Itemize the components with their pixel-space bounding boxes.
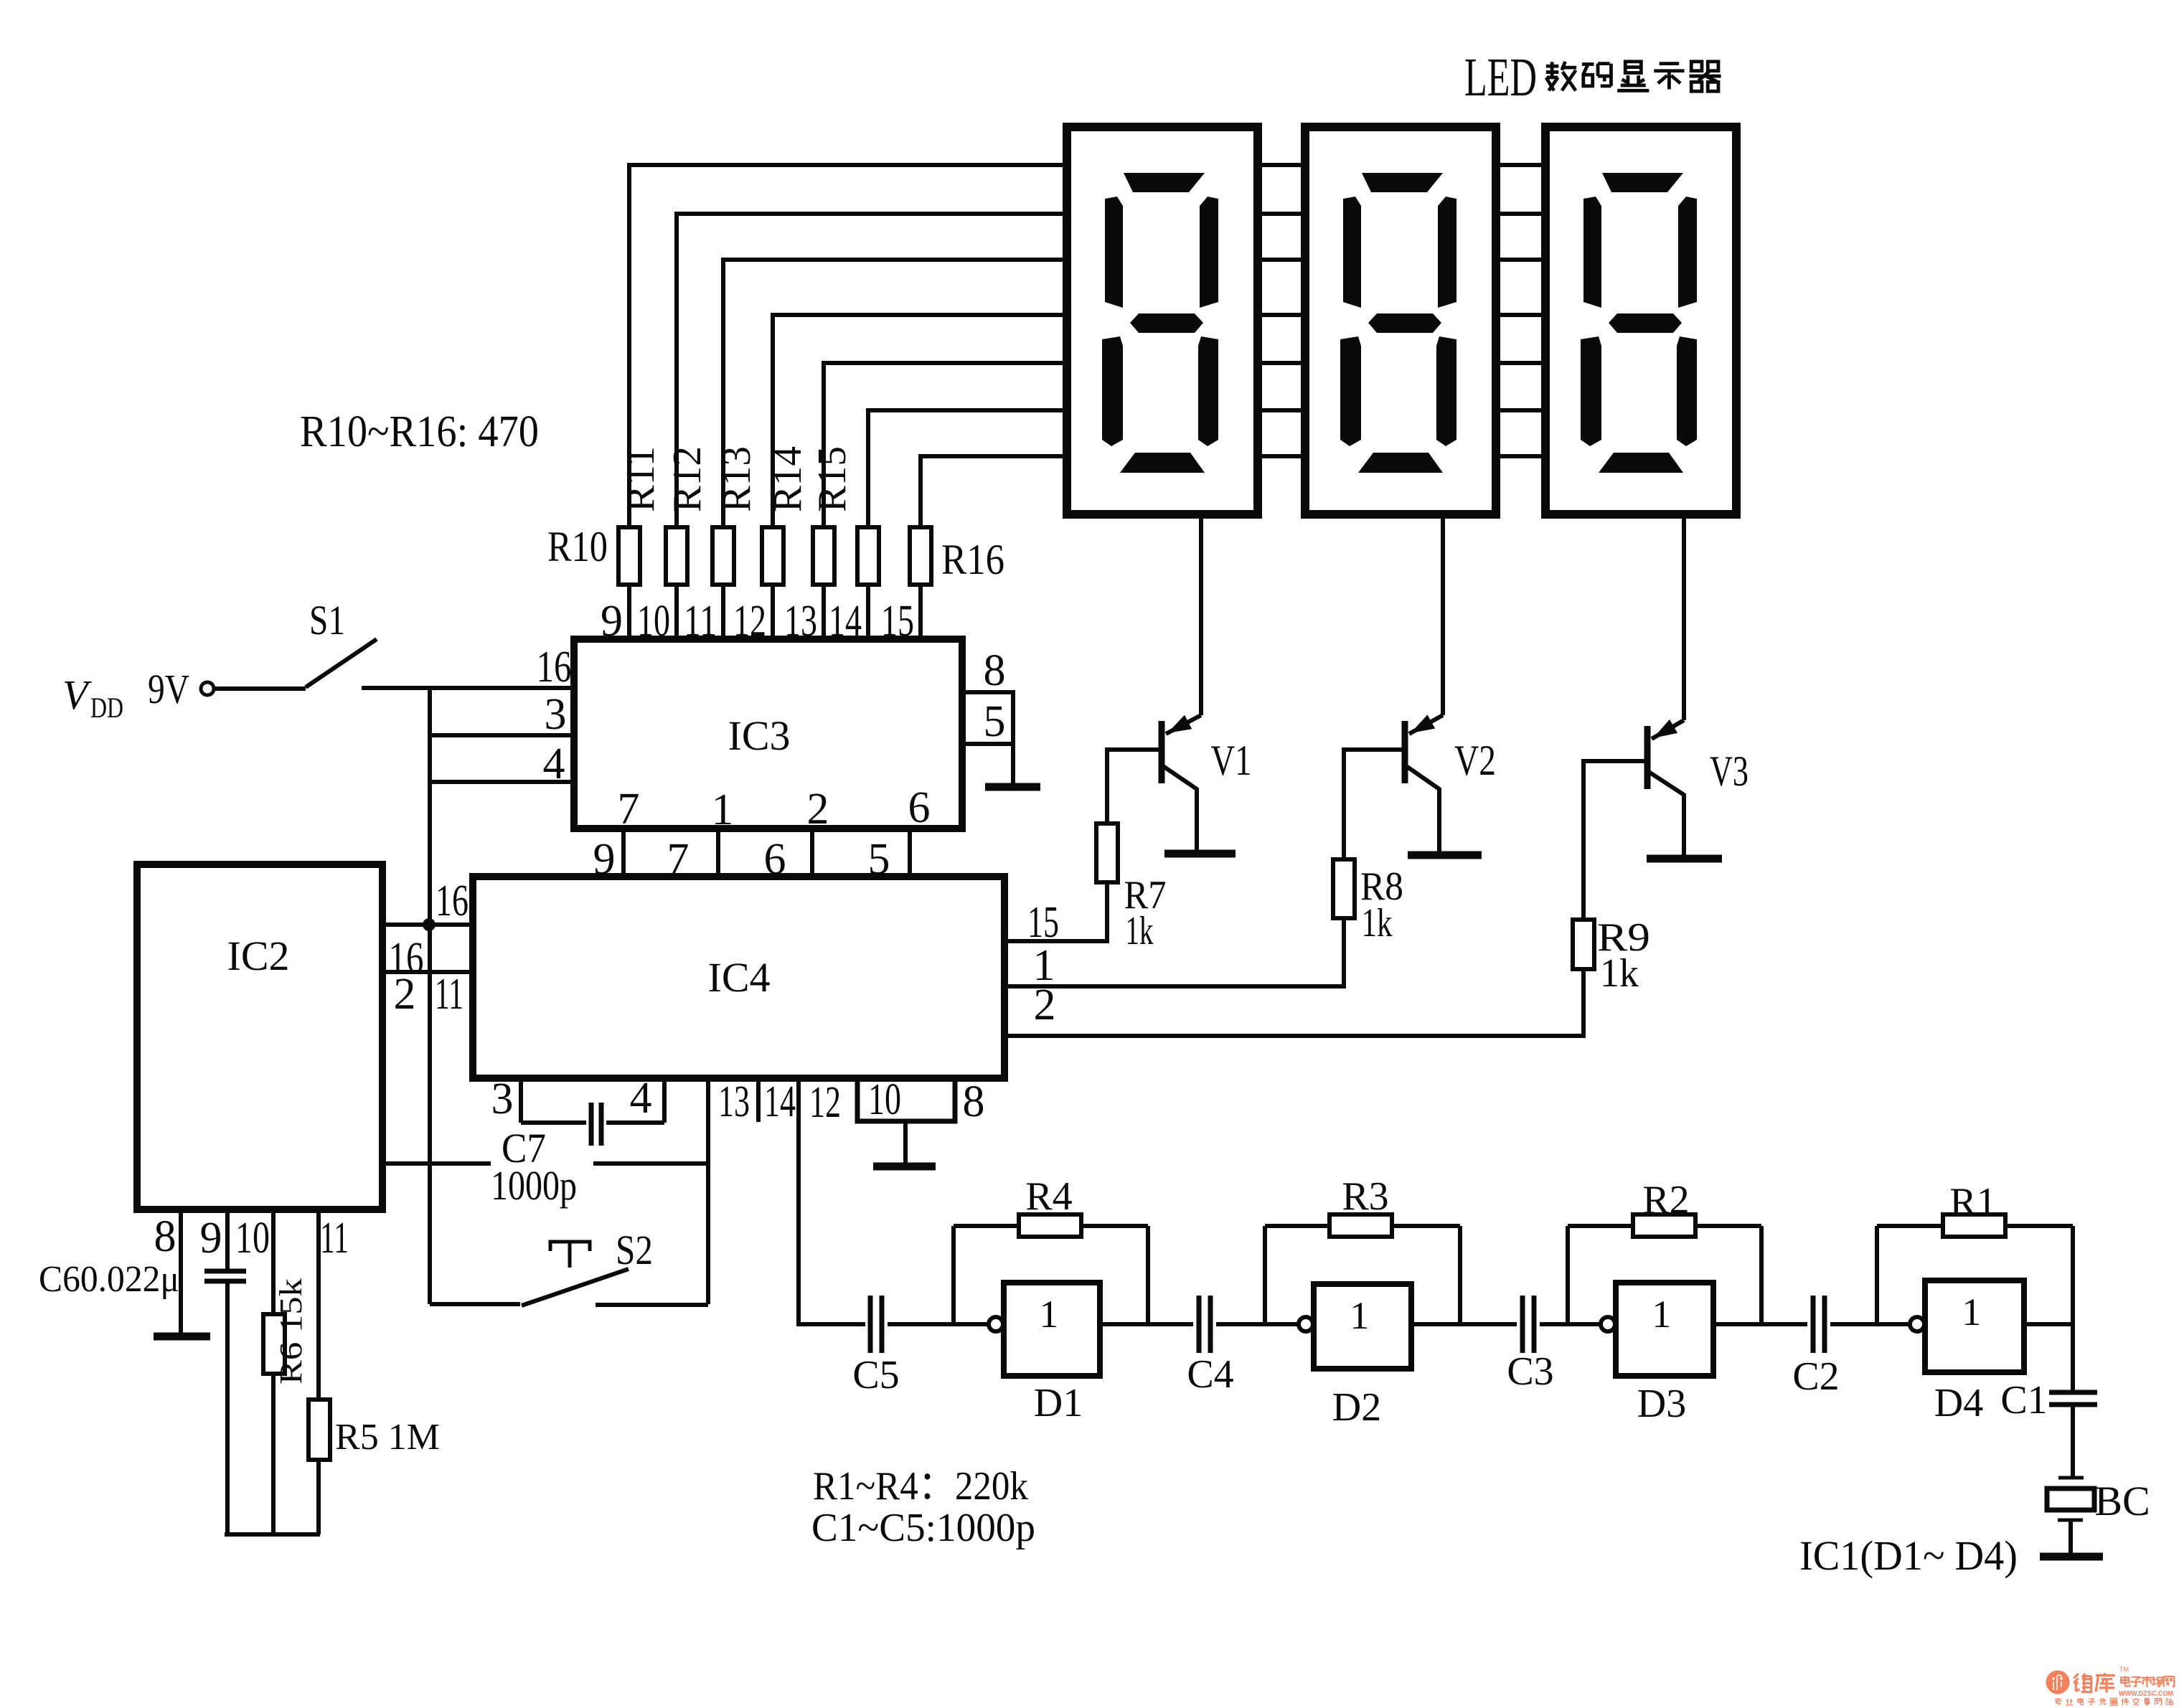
wire: bus stub between display 1 and 2, line c (1258, 258, 1305, 262)
wire: bus stub between display 1 and 2, line f (1258, 408, 1305, 412)
svg-text:13: 13 (784, 597, 817, 646)
resistor R1 feedback (1877, 1214, 2073, 1324)
svg-text:C3: C3 (1507, 1349, 1553, 1394)
svg-text:DD: DD (90, 692, 123, 724)
svg-text:V3: V3 (1710, 747, 1749, 795)
wire: C4 to D2 input (1216, 1322, 1299, 1326)
wire: IC4 pin 3 stub (519, 1078, 523, 1123)
switch S1 (214, 639, 377, 689)
svg-text:D4: D4 (1934, 1381, 1983, 1425)
wire: display DS2 common pin down to transistor V2 (1441, 514, 1445, 715)
resistor R13 (762, 527, 783, 641)
svg-text:16: 16 (537, 643, 572, 692)
wire: IC2 aux pin to pin13 net (382, 1161, 708, 1166)
wire: bus stub between display 1 and 2, line a (1258, 163, 1305, 167)
svg-text:IC4: IC4 (708, 954, 771, 1001)
svg-text:6: 6 (908, 783, 931, 832)
wire: IC4 pin 14 down to C5 (796, 1078, 865, 1324)
label R4 (1025, 1174, 1072, 1219)
svg-text:R4: R4 (1025, 1174, 1072, 1219)
label R1 (1949, 1180, 1996, 1225)
pin label IC4 4 (630, 1074, 652, 1123)
label D4 (1934, 1381, 1983, 1425)
pin label IC3 8 (984, 646, 1006, 695)
wire: display DS3 common pin down to transistor V3 (1682, 514, 1686, 720)
label: R13 (rotated) (715, 446, 759, 512)
svg-text:8: 8 (984, 646, 1006, 695)
resistor R11 (666, 527, 687, 641)
svg-text:C2: C2 (1792, 1354, 1839, 1399)
svg-text:2: 2 (807, 785, 829, 834)
svg-text:R5 1M: R5 1M (335, 1417, 440, 1458)
svg-text:R1: R1 (1949, 1180, 1996, 1225)
wire: C1 to BC (2071, 1405, 2075, 1476)
label R7 1k (1124, 873, 1167, 953)
label C2 (1792, 1354, 1839, 1399)
svg-text:1k: 1k (1126, 909, 1154, 953)
svg-text:R16: R16 (941, 536, 1004, 583)
label: R14 (rotated) (766, 446, 810, 512)
svg-text:11: 11 (435, 970, 463, 1019)
pin label IC4 11 (435, 970, 463, 1019)
wire: segment bus line g (horizontal + drop to R16) (921, 454, 1067, 527)
wire: IC3 pin 16 from switch S1 (362, 686, 574, 690)
wire: bus stub between display 1 and 2, line b (1258, 212, 1305, 216)
capacitor C3 (1523, 1296, 1534, 1353)
inverter D3 (1601, 1283, 1713, 1376)
svg-text:C4: C4 (1187, 1352, 1233, 1397)
resistor R6 on pin 10 (263, 1209, 285, 1534)
resistor R16 (910, 527, 931, 641)
svg-text:IC1(D1~ D4): IC1(D1~ D4) (1799, 1532, 2018, 1579)
wire: IC3 pin 3 (430, 733, 574, 737)
wire: IC2 pin 2 to IC4 pin 11 (382, 970, 473, 974)
pin label IC3 3 (545, 690, 567, 739)
svg-text:V1: V1 (1211, 737, 1252, 784)
resistor R8 1k (1333, 747, 1355, 989)
resistor R15 (857, 527, 879, 641)
wire: segment bus line b (horizontal + drop to R11) (677, 212, 1067, 527)
svg-text:4: 4 (543, 740, 565, 788)
note: R10~R16 value 470 (300, 407, 539, 456)
resistor R7 1k (1096, 747, 1118, 943)
wire: segment bus line c (horizontal + drop to R12) (723, 258, 1067, 527)
label: R10 (547, 523, 608, 570)
svg-text:9V: 9V (148, 666, 189, 712)
svg-text:10: 10 (235, 1214, 270, 1263)
watermark text 维库电子市场网 (2074, 1666, 2174, 1698)
wire: D3 out to C2 (1713, 1322, 1807, 1326)
pin labels IC4 top: 9 7 6 5 (593, 835, 890, 884)
label C4 (1187, 1352, 1233, 1397)
label C1 (2000, 1378, 2047, 1422)
svg-text:10: 10 (637, 597, 670, 646)
note: R1~R4 and C1~C5 values (811, 1464, 1035, 1550)
label: R12 (rotated) (665, 446, 710, 512)
svg-text:1000p: 1000p (491, 1162, 577, 1209)
wire: V2 base (1344, 747, 1403, 752)
transistor V2 (1405, 714, 1482, 855)
label: LED digital display title (1464, 47, 1721, 108)
pin labels IC3 top: 9 10 11 12 13 14 15 (601, 597, 914, 646)
wire: D1 out to C4 (1100, 1322, 1193, 1326)
svg-text:R11: R11 (618, 446, 663, 512)
ground: BC (2040, 1520, 2103, 1557)
svg-text:S1: S1 (309, 597, 345, 643)
wire: bus stub between display 2 and 3, line e (1497, 361, 1545, 365)
svg-text:R14: R14 (766, 446, 810, 512)
label D2 (1332, 1385, 1381, 1430)
wire: bus stub between display 2 and 3, line g (1497, 454, 1545, 458)
label S2 (616, 1227, 653, 1273)
svg-text:3: 3 (545, 690, 567, 739)
svg-text:R10~R16: 470: R10~R16: 470 (300, 407, 539, 456)
IC U3 (IC3) box (574, 639, 962, 829)
wire: V3 base (1583, 759, 1645, 763)
label R5 1M (335, 1417, 440, 1458)
resistor R3 feedback (1265, 1214, 1460, 1324)
resistor R14 (813, 527, 834, 641)
label V1 (1211, 737, 1252, 784)
ground: IC4 pin 10 (873, 1121, 936, 1166)
label S1 (309, 597, 345, 643)
pin label IC4 15 (1027, 898, 1059, 947)
wire: bus stub between display 2 and 3, line d (1497, 313, 1545, 317)
capacitor C1 (2049, 1392, 2097, 1405)
pin label IC4 8 (963, 1077, 985, 1126)
svg-text:S2: S2 (616, 1227, 653, 1273)
svg-text:14: 14 (764, 1077, 796, 1126)
svg-text:1: 1 (1350, 1294, 1369, 1337)
svg-text:R6 15k: R6 15k (273, 1278, 309, 1384)
wire: pin 13/14 divider (756, 1078, 761, 1122)
wire: IC2 pin 8 to ground (179, 1209, 183, 1334)
svg-text:11: 11 (684, 597, 717, 646)
svg-text:R3: R3 (1342, 1174, 1388, 1219)
wire: bus stub between display 1 and 2, line g (1258, 454, 1305, 458)
capacitor C6 on pin 9 (204, 1209, 246, 1534)
IC U2 (IC2) box (137, 864, 382, 1209)
svg-text:8: 8 (963, 1077, 985, 1126)
label R8 1k (1360, 864, 1403, 945)
svg-text:1: 1 (1652, 1293, 1671, 1336)
wire: segment bus line e (horizontal + drop to R14) (824, 361, 1067, 527)
capacitor C2 (1813, 1296, 1825, 1353)
svg-text:R12: R12 (665, 446, 710, 512)
svg-text:R1~R4：220k: R1~R4：220k (813, 1464, 1028, 1509)
wire: IC3 pin 6 to IC4 pin 5 (908, 829, 912, 877)
wire: IC3 pin 8 stub (962, 690, 1013, 746)
inverter D4 (1910, 1280, 2024, 1372)
wire: D2 out to C3 (1411, 1322, 1517, 1326)
transistor V3 (1647, 719, 1722, 859)
resistor R5 on pin 11 (309, 1209, 330, 1534)
IC U4 (IC4) box (473, 877, 1004, 1078)
svg-text:V2: V2 (1454, 737, 1496, 784)
wire: segment bus line f (horizontal + drop to R15) (868, 408, 1067, 527)
svg-text:R2: R2 (1642, 1178, 1689, 1222)
resistor R12 (712, 527, 734, 641)
7-segment LED display DS2 (1305, 127, 1496, 514)
wire: IC3 pin 1 to IC4 pin 7 (716, 829, 720, 877)
svg-text:13: 13 (718, 1077, 750, 1126)
wire: IC3 pin 2 to IC4 pin 6 (810, 829, 814, 877)
wire: VDD rail vertical (428, 688, 432, 1304)
label: VDD 9V supply (62, 666, 189, 724)
svg-text:1k: 1k (1362, 901, 1393, 945)
svg-text:R15: R15 (810, 446, 855, 512)
watermark logo circle (2046, 1671, 2070, 1694)
svg-text:12: 12 (809, 1078, 841, 1127)
wire: bus stub between display 1 and 2, line e (1258, 361, 1305, 365)
wire: segment bus line a (horizontal + drop to R10) (629, 163, 1067, 527)
wire: segment bus line d (horizontal + drop to R13) (773, 313, 1067, 527)
ground: IC3 pin 5 (985, 744, 1040, 787)
capacitor C4 (1199, 1296, 1210, 1353)
svg-text:7: 7 (618, 785, 640, 834)
wire: C2 to D4 input (1830, 1322, 1910, 1326)
wire: bus stub between display 1 and 2, line d (1258, 313, 1305, 317)
svg-text:C1~C5:1000p: C1~C5:1000p (811, 1506, 1035, 1550)
svg-text:9: 9 (200, 1214, 222, 1263)
svg-text:LED: LED (1464, 47, 1537, 108)
pin label IC2 2 (394, 970, 416, 1019)
piezo sounder BC (2047, 1478, 2094, 1520)
svg-text:D2: D2 (1332, 1385, 1381, 1430)
pin label IC3 16 (537, 643, 572, 692)
wire: bus stub between display 2 and 3, line f (1497, 408, 1545, 412)
inverter D1 (989, 1283, 1100, 1376)
capacitor C5 (870, 1296, 882, 1353)
svg-text:1: 1 (1962, 1291, 1981, 1334)
node: junction VDD rail / pin16 (423, 918, 436, 931)
label BC (2094, 1478, 2150, 1524)
svg-text:C5: C5 (852, 1353, 899, 1397)
wire: IC3 pin 4 (430, 780, 574, 784)
ground: IC2 pin 8 (154, 1333, 210, 1341)
wire: C5 to D1 input (888, 1322, 989, 1326)
svg-text:WWW.DZSC.COM: WWW.DZSC.COM (2119, 1689, 2173, 1698)
pin label IC4 16 (436, 877, 469, 925)
wire: IC4 pin 1 to R8 (1004, 984, 1344, 989)
switch S2 (pushbutton) (430, 1242, 708, 1306)
wire: bottom rail joining pins 9,10,11 (225, 1532, 320, 1537)
wire: IC4 pin 13 down to S2 (706, 1078, 710, 1304)
wire: IC3 pin 5 stub (962, 742, 1013, 746)
svg-text:R10: R10 (547, 523, 608, 570)
wire: IC2 pin 16 to IC4 pin 16 (382, 923, 473, 927)
svg-text:14: 14 (829, 597, 862, 646)
resistor R4 feedback (954, 1214, 1148, 1324)
pin label IC4 1 (1033, 941, 1055, 990)
pin labels IC2 bottom: 8 9 10 11 (154, 1212, 349, 1263)
label IC1(D1~D4) (1799, 1532, 2018, 1579)
wire: IC3 pin 7 to IC4 pin 9 (621, 829, 626, 877)
wire: C3 to D3 input (1540, 1322, 1601, 1326)
capacitor C7 between pins 3 and 4 (521, 1103, 664, 1146)
wire: V1 base (1107, 747, 1159, 752)
wire: bus stub between display 2 and 3, line b (1497, 212, 1545, 216)
svg-text:15: 15 (881, 597, 914, 646)
svg-text:D3: D3 (1637, 1382, 1686, 1426)
svg-text:2: 2 (1034, 981, 1056, 1029)
svg-text:D1: D1 (1034, 1381, 1083, 1425)
label: R16 (941, 536, 1004, 583)
7-segment LED display DS3 (1545, 127, 1736, 514)
svg-text:1: 1 (712, 785, 734, 834)
label: R11 (rotated) (618, 446, 663, 512)
resistor R2 feedback (1568, 1214, 1761, 1324)
svg-text:9: 9 (601, 597, 623, 646)
pin labels IC4 bottom: 13 14 12 (718, 1077, 841, 1127)
label R6 15k (rotated) (273, 1278, 309, 1384)
pin labels IC3 bottom: 7 1 2 6 (618, 783, 931, 834)
wire: bus stub between display 2 and 3, line a (1497, 163, 1545, 167)
node: VDD terminal (201, 682, 214, 695)
svg-text:2: 2 (394, 970, 416, 1019)
wire: IC4 pin 10 stub box (857, 1075, 955, 1124)
svg-text:1: 1 (1039, 1293, 1058, 1336)
svg-text:BC: BC (2094, 1478, 2150, 1524)
label C7 1000p (491, 1125, 577, 1209)
svg-text:8: 8 (154, 1212, 177, 1261)
label C3 (1507, 1349, 1553, 1394)
label: R15 (rotated) (810, 446, 855, 512)
label R2 (1642, 1178, 1689, 1222)
transistor V1 (1162, 715, 1236, 854)
svg-text:3: 3 (491, 1075, 514, 1123)
label D3 (1637, 1382, 1686, 1426)
pin label IC4 3 (491, 1075, 514, 1123)
svg-text:TM: TM (2119, 1666, 2129, 1673)
resistor R10 (618, 527, 640, 641)
svg-text:15: 15 (1027, 898, 1059, 947)
svg-text:11: 11 (320, 1214, 349, 1263)
label R9 1k (1597, 915, 1650, 996)
pin label IC4 2 right (1034, 981, 1056, 1029)
svg-text:16: 16 (436, 877, 469, 925)
svg-text:C60.022μ: C60.022μ (39, 1259, 179, 1300)
wire: bus stub between display 2 and 3, line c (1497, 258, 1545, 262)
svg-text:4: 4 (630, 1074, 652, 1123)
svg-text:IC2: IC2 (227, 933, 290, 979)
wire: D4 output to C1 (2024, 1226, 2073, 1390)
label D1 (1034, 1381, 1083, 1425)
svg-text:5: 5 (984, 697, 1006, 746)
label C6 0.022u (39, 1259, 179, 1300)
label V2 (1454, 737, 1496, 784)
pin label IC3 5 (984, 697, 1006, 746)
wire: IC4 pin 2 to R9 (1004, 1034, 1583, 1038)
wire: IC4 pin 4 stub (662, 1078, 667, 1123)
svg-text:1k: 1k (1600, 951, 1639, 996)
wire: display DS1 common pin down to transistor V1 (1199, 514, 1203, 715)
svg-text:R13: R13 (715, 446, 759, 512)
label C5 (852, 1353, 899, 1397)
resistor R9 1k (1573, 759, 1594, 1038)
pin label IC3 4 (543, 740, 565, 788)
7-segment LED display DS1 (1067, 127, 1258, 514)
pin label IC2 16 (389, 934, 424, 983)
label R3 (1342, 1174, 1388, 1219)
label V3 (1710, 747, 1749, 795)
wire: IC4 pin 15 to R7 (1004, 939, 1107, 943)
svg-text:10: 10 (868, 1075, 901, 1124)
svg-text:C1: C1 (2000, 1378, 2047, 1422)
inverter D2 (1299, 1284, 1411, 1369)
svg-text:12: 12 (733, 597, 766, 646)
svg-text:IC3: IC3 (728, 712, 791, 759)
watermark slogan (2054, 1698, 2173, 1705)
